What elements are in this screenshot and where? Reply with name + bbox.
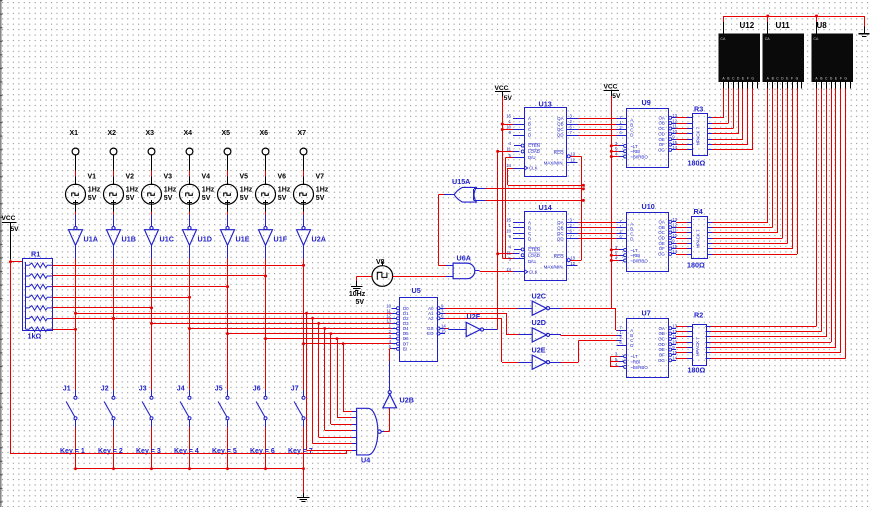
svg-text:U7: U7 <box>642 309 651 318</box>
wire U1D output down to switch J4 <box>189 245 191 390</box>
wire V3 to buffer U1C <box>151 204 153 226</box>
wire J6 to ground bus <box>264 427 267 470</box>
wire U2B output up to U5 EI <box>390 349 397 391</box>
svg-text:CTEN: CTEN <box>528 143 540 148</box>
wire R4 out 7 to display U11 pin <box>708 89 798 255</box>
svg-text:U2D: U2D <box>532 318 546 327</box>
wire X6 to V6 <box>265 155 267 184</box>
svg-text:EO: EO <box>427 331 434 336</box>
wire switch ground bus <box>76 468 304 470</box>
svg-text:U5: U5 <box>412 286 421 295</box>
svg-text:D: D <box>630 132 633 137</box>
svg-text:G: G <box>796 77 799 81</box>
svg-text:CLK: CLK <box>529 166 538 171</box>
wire R1 row 1 to column X7 <box>53 264 306 267</box>
svg-text:R2: R2 <box>694 311 703 320</box>
wire U5 A1 to U2D <box>445 313 532 335</box>
wire J4 to ground bus <box>188 427 191 470</box>
svg-text:D: D <box>630 236 633 241</box>
svg-text:U11: U11 <box>776 21 791 30</box>
wire R3 out 6 to display U12 pin <box>707 89 748 145</box>
wire R2 out 2 to display U8 pin <box>706 89 822 332</box>
svg-text:U10: U10 <box>642 202 655 211</box>
wire X1 to V1 <box>75 155 77 184</box>
svg-text:X3: X3 <box>146 130 155 137</box>
wire U9 blanking stubs from VCC rail <box>610 144 619 158</box>
wire R3 out 7 to display U12 pin <box>707 89 753 150</box>
svg-text:13: 13 <box>570 152 575 157</box>
wire R3 out 5 to display U12 pin <box>707 89 743 140</box>
svg-text:12: 12 <box>570 157 575 162</box>
svg-text:1kΩ: 1kΩ <box>28 332 42 341</box>
wire J1 to ground bus <box>74 427 77 470</box>
svg-text:~RBI: ~RBI <box>630 253 640 258</box>
wire U2C output to U7 A route <box>550 308 611 310</box>
wire U10 OD to R4 <box>676 238 692 240</box>
display U11 (7-segment) <box>763 21 805 89</box>
svg-text:11: 11 <box>507 250 512 255</box>
svg-text:V7: V7 <box>316 174 325 181</box>
wire U13 LOAD row <box>496 150 519 153</box>
power VCC (above U9) 5V <box>604 83 621 100</box>
switch J3 <box>139 386 153 428</box>
wire U13 RCO to U14 RCO carry rail <box>570 156 581 260</box>
inverter U2B <box>383 391 414 408</box>
svg-text:OG: OG <box>658 252 665 257</box>
svg-text:OF: OF <box>659 353 665 358</box>
wire U5 GS to U2F <box>445 329 466 330</box>
wire V8 output to U6A <box>393 276 454 278</box>
inverter U2D <box>532 318 550 342</box>
clock source V6 1Hz 5V <box>256 174 291 205</box>
svg-text:180Ω: 180Ω <box>688 365 706 374</box>
svg-text:B: B <box>528 122 531 127</box>
wire V7 to buffer U2A <box>303 204 305 226</box>
wire net X2 tap row to U5 D2 <box>112 317 396 320</box>
wire U10 blanking stubs from VCC rail <box>610 248 619 262</box>
svg-text:13: 13 <box>672 323 677 328</box>
wire U2D output to U7 B <box>550 335 622 336</box>
label Key = 3 <box>136 448 161 455</box>
svg-text:J6: J6 <box>253 386 261 393</box>
svg-text:V2: V2 <box>126 174 135 181</box>
wire J5 to ground bus <box>226 427 229 470</box>
svg-text:D: D <box>630 343 633 348</box>
svg-text:MAX/MIN: MAX/MIN <box>544 265 563 270</box>
wire U9 OB to R3 <box>676 123 692 125</box>
wire U15A output down to U6A <box>439 195 455 266</box>
svg-text:HPACK 7: HPACK 7 <box>696 229 701 248</box>
svg-text:5V: 5V <box>88 195 97 202</box>
svg-text:OA: OA <box>658 219 664 224</box>
svg-text:U2E: U2E <box>532 345 546 354</box>
IC U5 priority encoder <box>386 286 446 362</box>
wire net X4 tap row to U5 D4 <box>188 327 396 330</box>
svg-text:CA: CA <box>765 37 771 41</box>
wire U7 OA to R2 <box>676 326 692 328</box>
svg-text:OE: OE <box>658 137 664 142</box>
svg-text:V8: V8 <box>376 259 385 266</box>
svg-text:R3: R3 <box>694 104 703 113</box>
svg-text:B: B <box>528 225 531 230</box>
node X3 indicator <box>146 130 155 155</box>
svg-text:R1: R1 <box>31 250 40 259</box>
svg-text:R4: R4 <box>694 207 703 216</box>
wire U4 output to U2B input <box>381 408 390 432</box>
wire U14 LOAD row <box>498 253 520 255</box>
node X2 indicator <box>108 130 117 155</box>
svg-text:X5: X5 <box>222 130 231 137</box>
wire net X4 branch down to U4 input <box>323 327 356 431</box>
wire U1E output down to switch J5 <box>227 245 229 390</box>
wire R4 out 1 to display U11 pin <box>708 89 768 223</box>
svg-text:RCO: RCO <box>554 150 564 155</box>
clock source V4 1Hz 5V <box>180 174 215 205</box>
svg-text:V6: V6 <box>278 174 287 181</box>
svg-text:QA: QA <box>557 116 563 121</box>
wire U10 OE to R4 <box>676 243 692 245</box>
label Key = 7 <box>288 448 313 455</box>
svg-text:EI: EI <box>403 346 407 351</box>
gate U4 (7-input AND) <box>352 408 381 464</box>
wire U9 OF to R3 <box>676 144 692 146</box>
wire VCC-left vertical rail down to key bus <box>10 259 12 454</box>
svg-text:10: 10 <box>506 229 511 234</box>
wire X4 to V4 <box>189 155 191 184</box>
switch J2 <box>101 386 115 428</box>
svg-text:OG: OG <box>658 148 665 153</box>
svg-text:VCC: VCC <box>604 83 618 90</box>
svg-text:U9: U9 <box>642 98 651 107</box>
buffer U1C <box>145 226 174 245</box>
svg-text:QB: QB <box>557 122 563 127</box>
svg-text:G: G <box>751 77 754 81</box>
svg-text:U2C: U2C <box>532 291 546 300</box>
wire U9 OC to R3 <box>676 128 692 130</box>
display U12 (7-segment) <box>719 21 761 89</box>
IC U14 counter <box>506 203 578 280</box>
svg-text:J4: J4 <box>177 386 185 393</box>
node X5 indicator <box>222 130 231 155</box>
svg-text:OB: OB <box>658 331 664 336</box>
wire R4 out 3 to display U11 pin <box>708 89 778 233</box>
svg-text:10: 10 <box>672 339 677 344</box>
switch J5 <box>215 386 229 428</box>
wire J7 to ground bus <box>302 427 305 470</box>
svg-text:V1: V1 <box>88 174 97 181</box>
svg-text:14: 14 <box>672 249 677 254</box>
svg-text:F: F <box>791 77 793 81</box>
svg-text:C: C <box>528 231 531 236</box>
svg-text:15: 15 <box>506 218 511 223</box>
svg-text:1Hz: 1Hz <box>240 187 253 194</box>
svg-text:11: 11 <box>672 228 677 233</box>
wire R1 row 4 to column X4 <box>53 296 192 299</box>
wire U1F output down to switch J6 <box>265 245 267 390</box>
power VCC (above U13) 5V <box>495 85 513 102</box>
svg-text:OC: OC <box>658 337 665 342</box>
svg-text:5V: 5V <box>504 95 513 102</box>
svg-text:1Hz: 1Hz <box>88 187 101 194</box>
buffer U1A <box>69 226 98 245</box>
svg-text:A2: A2 <box>428 316 434 321</box>
buffer U1B <box>107 226 136 245</box>
buffer U1E <box>221 226 250 245</box>
svg-text:U8: U8 <box>817 21 828 30</box>
clock source V3 1Hz 5V <box>142 174 177 205</box>
IC U13 counter <box>506 99 578 176</box>
wire net X6 branch down to U4 input <box>336 337 357 418</box>
display U8 (7-segment) <box>812 21 854 89</box>
svg-text:1Hz: 1Hz <box>278 187 291 194</box>
svg-text:OD: OD <box>658 236 665 241</box>
svg-text:OE: OE <box>658 347 664 352</box>
svg-text:5V: 5V <box>126 195 135 202</box>
svg-text:VCC: VCC <box>2 215 16 222</box>
svg-text:OB: OB <box>658 225 664 230</box>
svg-text:OC: OC <box>658 230 665 235</box>
wire R1 row 6 to column X2 <box>53 317 116 320</box>
svg-text:OE: OE <box>658 241 664 246</box>
wire net X5 tap row to U5 D5 <box>226 332 396 335</box>
wire U10 OC to R4 <box>676 232 692 234</box>
svg-text:CLK: CLK <box>529 270 538 275</box>
wire R1 row 5 to column X3 <box>53 306 154 309</box>
wire U14 QC to U10 <box>578 233 626 235</box>
wire R1 row 7 to column X1 <box>53 328 78 331</box>
wire common-anode rail <box>724 15 865 27</box>
buffer U1F <box>259 226 288 245</box>
svg-text:U4: U4 <box>361 455 370 464</box>
wire R2 out 3 to display U8 pin <box>706 89 827 337</box>
svg-text:V4: V4 <box>202 174 211 181</box>
wire U9 OD to R3 <box>676 133 692 135</box>
svg-text:X4: X4 <box>184 130 193 137</box>
svg-text:~BI/RBO: ~BI/RBO <box>630 365 648 370</box>
svg-text:12: 12 <box>672 118 677 123</box>
svg-text:QC: QC <box>557 127 564 132</box>
wire J3 to ground bus <box>150 427 153 470</box>
svg-text:5V: 5V <box>202 195 211 202</box>
svg-text:5V: 5V <box>240 195 249 202</box>
svg-text:10Hz: 10Hz <box>349 291 366 298</box>
wire V5 to buffer U1E <box>227 204 229 226</box>
svg-text:OG: OG <box>658 358 665 363</box>
svg-text:OB: OB <box>658 121 664 126</box>
wire U10 OG to R4 <box>676 254 692 256</box>
wire U9 OG to R3 <box>676 149 692 151</box>
wire U14 QA to U10 <box>578 222 626 224</box>
clock source V5 1Hz 5V <box>218 174 253 205</box>
svg-text:OF: OF <box>659 246 665 251</box>
clock source V7 1Hz 5V <box>294 174 329 205</box>
wire X7 to V7 <box>303 155 305 184</box>
wire U1A output down to switch J1 <box>75 245 77 390</box>
label Key = 5 <box>212 448 237 455</box>
resistor pack R4 180&#937; <box>687 207 708 270</box>
svg-text:D: D <box>528 133 531 138</box>
wire U14 QD to U10 <box>578 238 626 240</box>
svg-text:14: 14 <box>506 163 511 168</box>
svg-text:F: F <box>747 77 749 81</box>
wire U10 OA to R4 <box>676 222 692 224</box>
wire V4 to buffer U1D <box>189 204 191 226</box>
switch J1 <box>63 386 77 428</box>
node X6 indicator <box>260 130 269 155</box>
wire V2 to buffer U1B <box>113 204 115 226</box>
svg-text:U1E: U1E <box>236 235 250 244</box>
svg-text:J1: J1 <box>63 386 71 393</box>
svg-text:~BI/RBO: ~BI/RBO <box>630 258 648 263</box>
wire net X1 tap row to U5 D1 <box>74 312 396 315</box>
svg-text:5V: 5V <box>11 226 20 233</box>
wire R2 out 7 to display U8 pin <box>706 89 846 359</box>
svg-text:13: 13 <box>672 217 677 222</box>
svg-text:OF: OF <box>659 142 665 147</box>
wire U7 blanking tie <box>610 356 619 367</box>
wire U13 QC to U9 <box>578 129 626 131</box>
svg-text:X7: X7 <box>298 130 307 137</box>
svg-text:U1F: U1F <box>274 235 288 244</box>
clock source V2 1Hz 5V <box>104 174 139 205</box>
wire R4 out 5 to display U11 pin <box>708 89 788 244</box>
wire U2A output down to switch J7 <box>303 245 305 390</box>
svg-text:J2: J2 <box>101 386 109 393</box>
svg-text:QB: QB <box>557 225 563 230</box>
svg-text:A: A <box>528 116 531 121</box>
svg-text:QD: QD <box>557 236 564 241</box>
resistor pack R2 180&#937; <box>688 311 707 375</box>
border frame left edge (decorative) <box>0 0 2 507</box>
wire R1 row 3 to column X5 <box>53 285 230 288</box>
wire net X6 tap row to U5 D6 <box>264 337 396 340</box>
svg-text:U1A: U1A <box>84 235 98 244</box>
svg-text:D/U: D/U <box>528 155 536 160</box>
buffer U1D <box>183 226 212 245</box>
clock source V8 10Hz 5V <box>372 259 393 286</box>
svg-text:D: D <box>528 236 531 241</box>
wire R2 out 4 to display U8 pin <box>706 89 832 343</box>
label Key = 1 <box>60 448 85 455</box>
svg-text:OC: OC <box>658 126 665 131</box>
wire V6 to buffer U1F <box>265 204 267 226</box>
wire U7 OC to R2 <box>676 336 692 338</box>
wire U9 OA to R3 <box>676 117 692 119</box>
svg-text:5V: 5V <box>164 195 173 202</box>
wire U7 OD to R2 <box>676 342 692 344</box>
svg-text:~BI/RBO: ~BI/RBO <box>630 154 648 159</box>
svg-text:1Hz: 1Hz <box>164 187 177 194</box>
svg-text:V3: V3 <box>164 174 173 181</box>
wire U13 CLK row <box>508 168 585 187</box>
wire stub into R1 common + junction <box>9 260 22 263</box>
switch J6 <box>253 386 267 428</box>
svg-text:U15A: U15A <box>452 177 470 186</box>
ground (near V8) <box>349 287 366 307</box>
svg-text:J5: J5 <box>215 386 223 393</box>
svg-text:OD: OD <box>658 342 665 347</box>
wire U9 OE to R3 <box>676 139 692 141</box>
inverter U2C <box>532 291 550 315</box>
wire V1 to buffer U1A <box>75 204 77 226</box>
resistor network R1 1k&#937; <box>23 250 53 341</box>
svg-text:11: 11 <box>672 124 677 129</box>
svg-text:~RBI: ~RBI <box>630 360 640 365</box>
wire net X5 branch down to U4 input <box>330 332 357 424</box>
svg-text:~LT: ~LT <box>630 354 638 359</box>
wire R1 row 2 to column X6 <box>53 275 268 278</box>
svg-text:C: C <box>528 127 531 132</box>
svg-text:OD: OD <box>658 131 665 136</box>
pin U7 D stub <box>617 345 627 347</box>
wire J2 to ground bus <box>112 427 115 470</box>
inverter U2E <box>532 345 550 369</box>
wire U5 A2 to U2E <box>445 318 532 362</box>
gate U6A (AND) <box>453 254 475 279</box>
wire VCC rail down to U7 A (with stubs) <box>611 96 627 331</box>
wire net X7 branch down to U4 input <box>342 342 357 411</box>
svg-text:15: 15 <box>441 329 446 334</box>
svg-text:MAX/MIN: MAX/MIN <box>544 161 563 166</box>
ground (top right) <box>858 27 869 37</box>
svg-text:U14: U14 <box>539 203 552 212</box>
wire U13 QB to U9 <box>578 124 626 126</box>
wire U14 QB to U10 <box>578 227 626 229</box>
svg-text:QA: QA <box>557 220 563 225</box>
switch J4 <box>177 386 191 428</box>
svg-text:10: 10 <box>506 125 511 130</box>
svg-text:5V: 5V <box>278 195 287 202</box>
svg-text:10: 10 <box>672 233 677 238</box>
svg-text:14: 14 <box>506 267 511 272</box>
svg-text:HPACK 7: HPACK 7 <box>696 126 701 145</box>
svg-text:5V: 5V <box>356 299 365 306</box>
svg-text:X6: X6 <box>260 130 269 137</box>
svg-text:180Ω: 180Ω <box>687 261 705 270</box>
svg-text:F: F <box>840 77 842 81</box>
wire net X1 branch down to U4 input <box>305 312 357 451</box>
svg-text:U6A: U6A <box>457 254 471 263</box>
wire key bus row (net to U4 bottom input) <box>11 450 347 454</box>
svg-text:HPACK 7: HPACK 7 <box>695 337 700 356</box>
wire R4 out 4 to display U11 pin <box>708 89 783 239</box>
svg-text:U1B: U1B <box>122 235 136 244</box>
IC U10 BCD to 7-seg decoder <box>615 202 678 271</box>
svg-text:1Hz: 1Hz <box>202 187 215 194</box>
clock source V1 1Hz 5V <box>66 174 101 205</box>
svg-text:A: A <box>528 220 531 225</box>
svg-text:D/U: D/U <box>528 259 536 264</box>
wire U15A input rows to carry rail <box>486 187 585 202</box>
wire U13 QD to U9 <box>578 135 626 137</box>
svg-text:1Hz: 1Hz <box>126 187 139 194</box>
label Key = 6 <box>250 448 275 455</box>
svg-text:QC: QC <box>557 231 564 236</box>
wire R2 out 6 to display U8 pin <box>706 89 841 353</box>
svg-text:LOAD: LOAD <box>528 253 540 258</box>
wire X3 to V3 <box>151 155 153 184</box>
svg-text:G: G <box>844 77 847 81</box>
wire X5 to V5 <box>227 155 229 184</box>
wire U7 OG to R2 <box>676 358 692 360</box>
svg-text:CA: CA <box>813 37 819 41</box>
svg-text:5V: 5V <box>316 195 325 202</box>
wire U13 QA to U9 <box>578 118 626 120</box>
wire R4 out 2 to display U11 pin <box>708 89 773 228</box>
svg-text:OA: OA <box>658 326 664 331</box>
wire net X2 branch down to U4 input <box>311 317 356 444</box>
wire VCC rail to U13 B C <box>501 97 513 259</box>
